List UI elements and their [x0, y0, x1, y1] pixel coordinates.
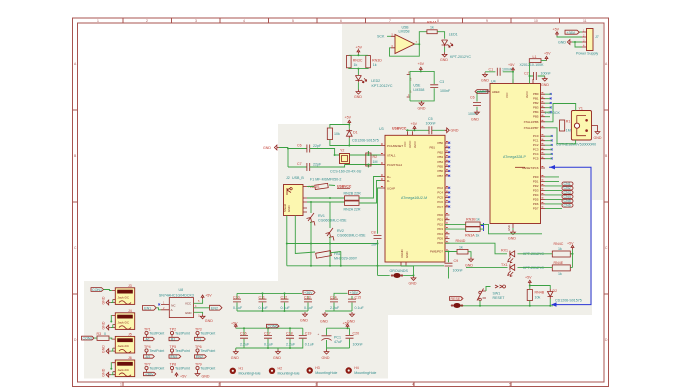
svg-text:AVCC: AVCC — [413, 141, 417, 148]
svg-text:9: 9 — [486, 19, 488, 23]
svg-text:C18: C18 — [286, 332, 293, 336]
capacitor C20 — [346, 328, 364, 348]
svg-text:GND: GND — [287, 206, 291, 212]
wire reset pullup net — [530, 285, 550, 290]
wire RN2 to U3 D+/D- — [359, 177, 381, 204]
svg-text:RN2A 22R: RN2A 22R — [344, 208, 361, 212]
svg-text:C19: C19 — [305, 332, 312, 336]
gnd (C6) — [471, 110, 479, 122]
resistor 1k to GND (PD7/HWB) — [457, 246, 468, 254]
capacitor C17 — [264, 328, 274, 348]
wire +36V to J7 pin1 — [580, 31, 583, 33]
svg-text:XTAL2/PB7: XTAL2/PB7 — [524, 126, 539, 130]
test connector (GROUNDS pad) — [391, 273, 403, 278]
svg-text:PC0: PC0 — [533, 134, 539, 138]
capacitor C19 — [299, 328, 315, 348]
power label USBVCC (fuse) — [337, 185, 352, 189]
svg-text:RN3D: RN3D — [372, 58, 382, 62]
svg-text:CON6: CON6 — [268, 325, 278, 329]
global label +36V (caps) — [303, 291, 315, 296]
svg-text:V+: V+ — [409, 77, 413, 81]
svg-text:0.1uF: 0.1uF — [264, 343, 274, 347]
capacitor C6 (XTAL1 22pF) — [297, 144, 322, 153]
svg-text:C7: C7 — [297, 162, 302, 166]
svg-text:C15: C15 — [355, 296, 362, 300]
gnd (row2 mid) — [273, 348, 281, 360]
resistor R1 — [560, 120, 571, 133]
global label EN2 — [210, 305, 222, 310]
U4 left/top pins — [492, 90, 529, 231]
svg-text:5: 5 — [292, 19, 294, 23]
svg-text:1k: 1k — [476, 233, 480, 237]
U3 right pins — [445, 143, 450, 252]
svg-text:U8: U8 — [179, 288, 184, 292]
svg-text:H3: H3 — [315, 366, 320, 370]
svg-text:CON2: CON2 — [83, 337, 93, 341]
capacitor C12 — [281, 293, 291, 311]
gnd (J4) — [102, 321, 113, 330]
power flag +5V (RX/TX) — [567, 242, 574, 250]
U4 PD net labels column — [545, 177, 573, 209]
resistor RN2A 22R — [344, 201, 361, 212]
svg-text:ATmega16U2-M: ATmega16U2-M — [401, 196, 427, 200]
sheet frame inner — [78, 23, 605, 382]
no-connect X marks (U4 PB/PC pins) — [550, 93, 553, 159]
svg-text:GND: GND — [405, 252, 409, 258]
capacitor C11 — [259, 293, 269, 311]
wire cap bus row2 — [236, 327, 303, 329]
svg-text:C9: C9 — [454, 259, 459, 263]
svg-text:TestPoint: TestPoint — [201, 349, 216, 353]
pin number ticks U3 — [381, 142, 448, 251]
wire CON1 to J3 — [104, 290, 112, 291]
svg-text:1uF: 1uF — [371, 243, 378, 247]
U4 PB1 PB2 stubs — [545, 99, 551, 104]
svg-text:10k: 10k — [334, 132, 340, 136]
svg-text:+5V: +5V — [356, 45, 363, 49]
resistor RN4E (TX) — [552, 261, 570, 276]
gnd (row2 left) — [231, 350, 239, 361]
svg-text:+5V: +5V — [553, 28, 560, 32]
svg-text:Y2: Y2 — [340, 149, 344, 153]
svg-text:0.1uF: 0.1uF — [305, 343, 315, 347]
svg-text:TestPoint: TestPoint — [175, 332, 190, 336]
op-amp U5E power unit — [407, 72, 425, 98]
capacitor C18 — [286, 328, 296, 348]
capacitor C10 — [233, 293, 243, 311]
blue annotation arrow (reset) — [549, 167, 591, 304]
test point TP3 — [195, 328, 216, 342]
svg-text:RN4A: RN4A — [427, 21, 437, 25]
resistor RN4C (RX) — [552, 242, 570, 257]
wire opamp out — [415, 32, 427, 45]
svg-text:1M: 1M — [373, 160, 378, 164]
svg-text:C3: C3 — [440, 80, 445, 84]
svg-text:2.2uF: 2.2uF — [286, 343, 296, 347]
svg-text:22pF: 22pF — [313, 144, 322, 148]
svg-text:2.2uF: 2.2uF — [330, 306, 340, 310]
svg-text:U5E: U5E — [413, 83, 421, 87]
svg-text:PD4: PD4 — [533, 193, 539, 197]
svg-text:C10: C10 — [233, 296, 240, 300]
label GROUNDS — [390, 269, 409, 273]
svg-text:CON1: CON1 — [92, 288, 102, 292]
wire (J6 pin1) — [110, 363, 113, 369]
svg-text:PD2: PD2 — [437, 222, 443, 226]
svg-text:+5V: +5V — [231, 322, 238, 326]
svg-text:H2: H2 — [278, 367, 283, 371]
svg-text:RV2: RV2 — [337, 229, 344, 233]
capacitor C15 — [348, 296, 364, 312]
resistor RN3B (16U2 serial) — [466, 218, 480, 227]
svg-text:GND: GND — [202, 375, 210, 379]
svg-text:J6: J6 — [128, 356, 132, 360]
resistor R2 (1M xtal) — [366, 153, 378, 166]
wire C6 to XTAL1 — [310, 149, 381, 156]
svg-text:7: 7 — [389, 19, 391, 23]
svg-text:GND: GND — [322, 356, 330, 360]
gnd (C14) — [320, 312, 328, 324]
switch SW1 — [477, 287, 505, 306]
test connector (RESET pad) — [451, 303, 463, 308]
svg-text:100nF: 100nF — [502, 67, 513, 71]
svg-text:LM358: LM358 — [413, 88, 424, 92]
wire RV1/RV2 stubs — [311, 202, 330, 266]
global label EN1 — [143, 305, 157, 310]
gnd (U5E) — [418, 101, 426, 111]
svg-text:PD5: PD5 — [533, 197, 539, 201]
svg-text:+5V: +5V — [180, 375, 187, 379]
svg-text:RN3C: RN3C — [353, 58, 363, 62]
svg-text:TX1: TX1 — [501, 263, 508, 267]
svg-text:0.1uF: 0.1uF — [281, 306, 291, 310]
label AREF — [475, 90, 490, 94]
test point TP7 — [144, 363, 165, 377]
gnd (LED2) — [354, 82, 362, 99]
svg-text:C14: C14 — [330, 296, 337, 300]
svg-text:PB5: PB5 — [533, 115, 539, 119]
svg-text:+36V: +36V — [145, 373, 154, 377]
svg-text:1.CLOCK: 1.CLOCK — [545, 111, 561, 115]
gnd (PD7 pulldown) — [465, 257, 473, 268]
wire cap bus 1 bottom — [237, 310, 308, 312]
wire crystal gnd — [279, 148, 307, 168]
IC U3 ATmega16U2 body — [379, 127, 445, 262]
svg-text:22pF: 22pF — [313, 163, 322, 167]
svg-text:USB_B: USB_B — [292, 176, 304, 180]
svg-text:1k: 1k — [354, 63, 358, 67]
svg-text:5: 5 — [509, 383, 511, 387]
capacitor C3 — [430, 80, 451, 93]
svg-text:GND: GND — [418, 107, 426, 111]
svg-text:PC5: PC5 — [533, 157, 539, 161]
U3 left pin names — [387, 141, 417, 258]
svg-text:NC: NC — [171, 303, 175, 307]
test point TP2 — [169, 328, 190, 342]
svg-text:TestPoint: TestPoint — [175, 349, 190, 353]
power flag +5V (U4 VCC) — [508, 63, 515, 72]
wire +5V to RN3C RN3D tops — [349, 54, 368, 56]
svg-text:PD1: PD1 — [437, 218, 443, 222]
U3 right pin names — [430, 141, 444, 254]
test point TP5 — [169, 345, 190, 359]
svg-text:CCS-160-20-4X-0U: CCS-160-20-4X-0U — [330, 170, 362, 174]
connector J2 USB_B — [283, 176, 307, 216]
capacitor C9 — [445, 251, 464, 279]
svg-text:C2: C2 — [524, 72, 529, 76]
capacitor C5 — [426, 117, 437, 134]
svg-text:GND: GND — [558, 41, 566, 45]
wire CON2 R3 J5 — [94, 338, 112, 339]
gnd (cap bus 2) — [347, 312, 355, 324]
inductor L1 — [520, 55, 545, 67]
power flag +5V (cap row 2) — [231, 322, 238, 329]
svg-text:RX1: RX1 — [501, 249, 508, 253]
wire RN3 bottoms join to LED2 — [349, 68, 368, 75]
svg-text:LM358: LM358 — [399, 29, 410, 33]
svg-text:PC7: PC7 — [437, 205, 443, 209]
wire SCK to +in — [387, 35, 391, 37]
svg-text:GND: GND — [594, 136, 602, 140]
svg-text:C12: C12 — [281, 296, 288, 300]
svg-text:GND: GND — [508, 237, 516, 241]
svg-text:RN2B 22R: RN2B 22R — [344, 192, 362, 196]
capacitor C14 — [330, 296, 340, 312]
capacitor C2 — [524, 72, 551, 81]
capacitor C1 — [485, 67, 513, 76]
svg-text:D1: D1 — [353, 131, 358, 135]
svg-text:1: 1 — [97, 19, 99, 23]
mounting hole H4 — [346, 366, 377, 375]
svg-text:RN3A: RN3A — [465, 233, 475, 237]
svg-text:1M: 1M — [566, 129, 571, 133]
wire XTAL2 to resonator bottom — [545, 128, 576, 144]
gnd (cap bus 1) — [300, 312, 308, 323]
svg-text:B1: B1 — [171, 338, 175, 342]
wire cap bus 2 — [334, 293, 348, 296]
U4 PB/PC stub wires — [545, 94, 551, 112]
svg-text:PC5: PC5 — [437, 195, 443, 199]
U3 left pins — [381, 146, 407, 267]
svg-text:+5V: +5V — [525, 276, 532, 280]
svg-text:GND: GND — [409, 282, 417, 286]
svg-text:2: 2 — [146, 19, 148, 23]
svg-text:C11: C11 — [259, 296, 265, 300]
svg-text:0.1uF: 0.1uF — [355, 306, 365, 310]
svg-text:+5V: +5V — [567, 242, 574, 246]
svg-text:11: 11 — [583, 19, 587, 23]
gnd (U8) — [194, 312, 214, 323]
power flag +5V (U8) — [201, 294, 212, 300]
svg-text:100nF: 100nF — [453, 269, 464, 273]
test point TP6 — [195, 345, 216, 359]
svg-text:8: 8 — [437, 19, 439, 23]
svg-text:PB7: PB7 — [438, 174, 444, 178]
svg-text:GND: GND — [471, 118, 479, 122]
svg-text:MountingHole: MountingHole — [278, 372, 300, 376]
svg-text:GND: GND — [320, 320, 328, 324]
wire AVCC riser — [530, 61, 547, 84]
U4 RESET strikethrough — [515, 166, 525, 168]
wire RX row — [518, 253, 573, 255]
svg-text:TestPoint: TestPoint — [201, 367, 216, 371]
connector J7 power supply — [576, 29, 599, 56]
svg-text:PD0: PD0 — [533, 175, 539, 179]
svg-text:uAREF: uAREF — [478, 90, 490, 94]
svg-text:C6: C6 — [470, 96, 475, 100]
svg-text:UCAP: UCAP — [387, 187, 395, 191]
svg-text:PB0: PB0 — [438, 141, 444, 145]
svg-text:PC2: PC2 — [437, 186, 443, 190]
svg-text:UVCC: UVCC — [408, 141, 412, 148]
svg-text:10k: 10k — [535, 296, 541, 300]
svg-text:RN3B: RN3B — [466, 218, 476, 222]
svg-text:PC3: PC3 — [533, 148, 539, 152]
LED TX1 — [501, 263, 544, 277]
resistor RN4B 10k pullup — [527, 290, 544, 301]
svg-text:Jack-DC: Jack-DC — [118, 368, 130, 372]
svg-text:L1: L1 — [533, 55, 537, 59]
svg-text:PD2: PD2 — [533, 184, 539, 188]
svg-text:PD0: PD0 — [437, 213, 443, 217]
svg-text:KPT-2012YC: KPT-2012YC — [450, 55, 471, 59]
wire cap bus 2 bottom — [325, 310, 352, 312]
svg-text:F1 MF-MSMF050-2: F1 MF-MSMF050-2 — [310, 178, 341, 182]
capacitor C13 — [304, 296, 314, 312]
resonator Y1 — [556, 107, 596, 147]
svg-text:GND: GND — [273, 356, 281, 360]
svg-text:+: + — [318, 332, 320, 336]
power flag +5V (U3) — [411, 122, 418, 130]
capacitor C6 (AREF) — [468, 92, 486, 117]
wire RN4A to LED1 — [437, 32, 444, 39]
wire reset bottom — [461, 299, 554, 306]
wire VBUS to fuse to USBVCC — [307, 185, 335, 187]
svg-text:RESET: RESET — [493, 296, 506, 300]
svg-text:CSTNE16M0V530000R0: CSTNE16M0V530000R0 — [556, 142, 596, 146]
svg-text:PD5: PD5 — [437, 237, 443, 241]
wire 16U2 reset net — [330, 125, 381, 146]
wire pc1/c20 bus — [327, 327, 350, 329]
svg-text:4: 4 — [412, 383, 414, 387]
svg-text:4: 4 — [243, 19, 245, 23]
wire GND to J7 pins 3,4 — [572, 42, 582, 47]
svg-text:CN6: CN6 — [564, 203, 571, 207]
gnd (pc1) — [322, 350, 330, 361]
gnd (LED1) — [440, 47, 448, 62]
svg-text:100nF: 100nF — [440, 89, 451, 93]
connector J6 Jack-DC — [112, 356, 135, 376]
diode D1 (16U2 reset) — [346, 129, 357, 139]
svg-text:RN4E: RN4E — [554, 261, 564, 265]
svg-text:GND: GND — [354, 95, 362, 99]
svg-text:+36V: +36V — [350, 291, 359, 295]
svg-text:C20: C20 — [353, 332, 360, 336]
wire TX row — [466, 266, 573, 268]
resistor RN2B 22R — [344, 192, 362, 201]
svg-text:GND: GND — [263, 146, 271, 150]
svg-text:GND: GND — [465, 264, 473, 268]
svg-text:Jack-DC: Jack-DC — [118, 296, 130, 300]
power flag +5V (16U2 reset) — [345, 116, 352, 125]
svg-text:C16: C16 — [240, 332, 247, 336]
svg-text:D-: D- — [387, 179, 390, 183]
svg-text:3: 3 — [195, 19, 197, 23]
svg-text:RN4D: RN4D — [456, 239, 466, 243]
no-connect X (U8 NC) — [158, 304, 160, 306]
wire U5E vcc net — [410, 71, 434, 101]
svg-text:A3: A3 — [146, 355, 150, 359]
svg-text:TestPoint: TestPoint — [175, 367, 190, 371]
LED LED2 — [355, 76, 392, 88]
svg-text:RV1: RV1 — [318, 214, 325, 218]
gnd (crystal caps) — [263, 145, 279, 150]
svg-text:PB1: PB1 — [430, 146, 436, 150]
IC U8 inverter — [159, 288, 200, 318]
svg-text:1: 1 — [120, 383, 122, 387]
gnd (C2) — [541, 77, 549, 88]
svg-text:ATmega328-P: ATmega328-P — [503, 155, 527, 159]
diode D2 — [548, 289, 582, 303]
global label CON6 — [267, 324, 280, 328]
svg-text:VCC: VCC — [505, 92, 509, 98]
svg-text:CD1206-S01575: CD1206-S01575 — [352, 139, 379, 143]
svg-text:CG0603MLC-05E: CG0603MLC-05E — [318, 219, 347, 223]
svg-text:PB3: PB3 — [438, 155, 444, 159]
global label CON1 — [91, 288, 104, 293]
svg-text:+VBUS: +VBUS — [308, 185, 320, 189]
capacitor C16 — [240, 328, 250, 348]
svg-text:Jack-DC: Jack-DC — [118, 321, 130, 325]
resistor RN4D wire (PD6 long) — [445, 243, 507, 254]
svg-text:CG0603MLC-05E: CG0603MLC-05E — [337, 234, 366, 238]
svg-text:MountingHole: MountingHole — [354, 371, 376, 375]
svg-text:SCK: SCK — [377, 34, 385, 38]
svg-text:TestPoint: TestPoint — [150, 367, 165, 371]
LED RX1 — [501, 249, 544, 263]
wire usb mid rail — [287, 243, 378, 245]
svg-text:GND: GND — [440, 58, 448, 62]
svg-text:RN4C: RN4C — [554, 242, 564, 246]
svg-text:47uF: 47uF — [334, 340, 343, 344]
IC U4 ATmega328-P body — [490, 80, 541, 224]
power flag +5V (J7) — [553, 28, 560, 37]
capacitor C7 (XTAL2 22pF) — [297, 162, 322, 171]
wire +5V feed — [572, 250, 574, 268]
svg-text:USBVCC: USBVCC — [392, 127, 407, 131]
wire PD3 to RN3A — [445, 228, 466, 230]
svg-text:AREF: AREF — [492, 90, 500, 94]
power flag +5V (PC1/C20) — [343, 322, 350, 329]
resistor R3 — [97, 332, 110, 340]
svg-text:3: 3 — [315, 383, 317, 387]
svg-text:+5V: +5V — [345, 116, 352, 120]
gnd (Y1) — [592, 126, 602, 141]
svg-text:GND: GND — [451, 129, 459, 133]
svg-text:PB2: PB2 — [438, 150, 444, 154]
ferrite FB1 — [316, 251, 358, 261]
svg-text:+5V: +5V — [418, 62, 425, 66]
wire (J4 pin1) — [110, 316, 113, 322]
global label +36V (C15) — [349, 291, 361, 296]
test point TP1 — [144, 328, 165, 342]
svg-text:2: 2 — [218, 383, 220, 387]
blue cursor mark — [481, 223, 484, 231]
svg-text:PD3: PD3 — [533, 188, 539, 192]
svg-text:GND: GND — [102, 296, 106, 304]
wire U8 vcc — [194, 299, 203, 303]
wire +5V to J7 pin2 — [557, 36, 582, 37]
